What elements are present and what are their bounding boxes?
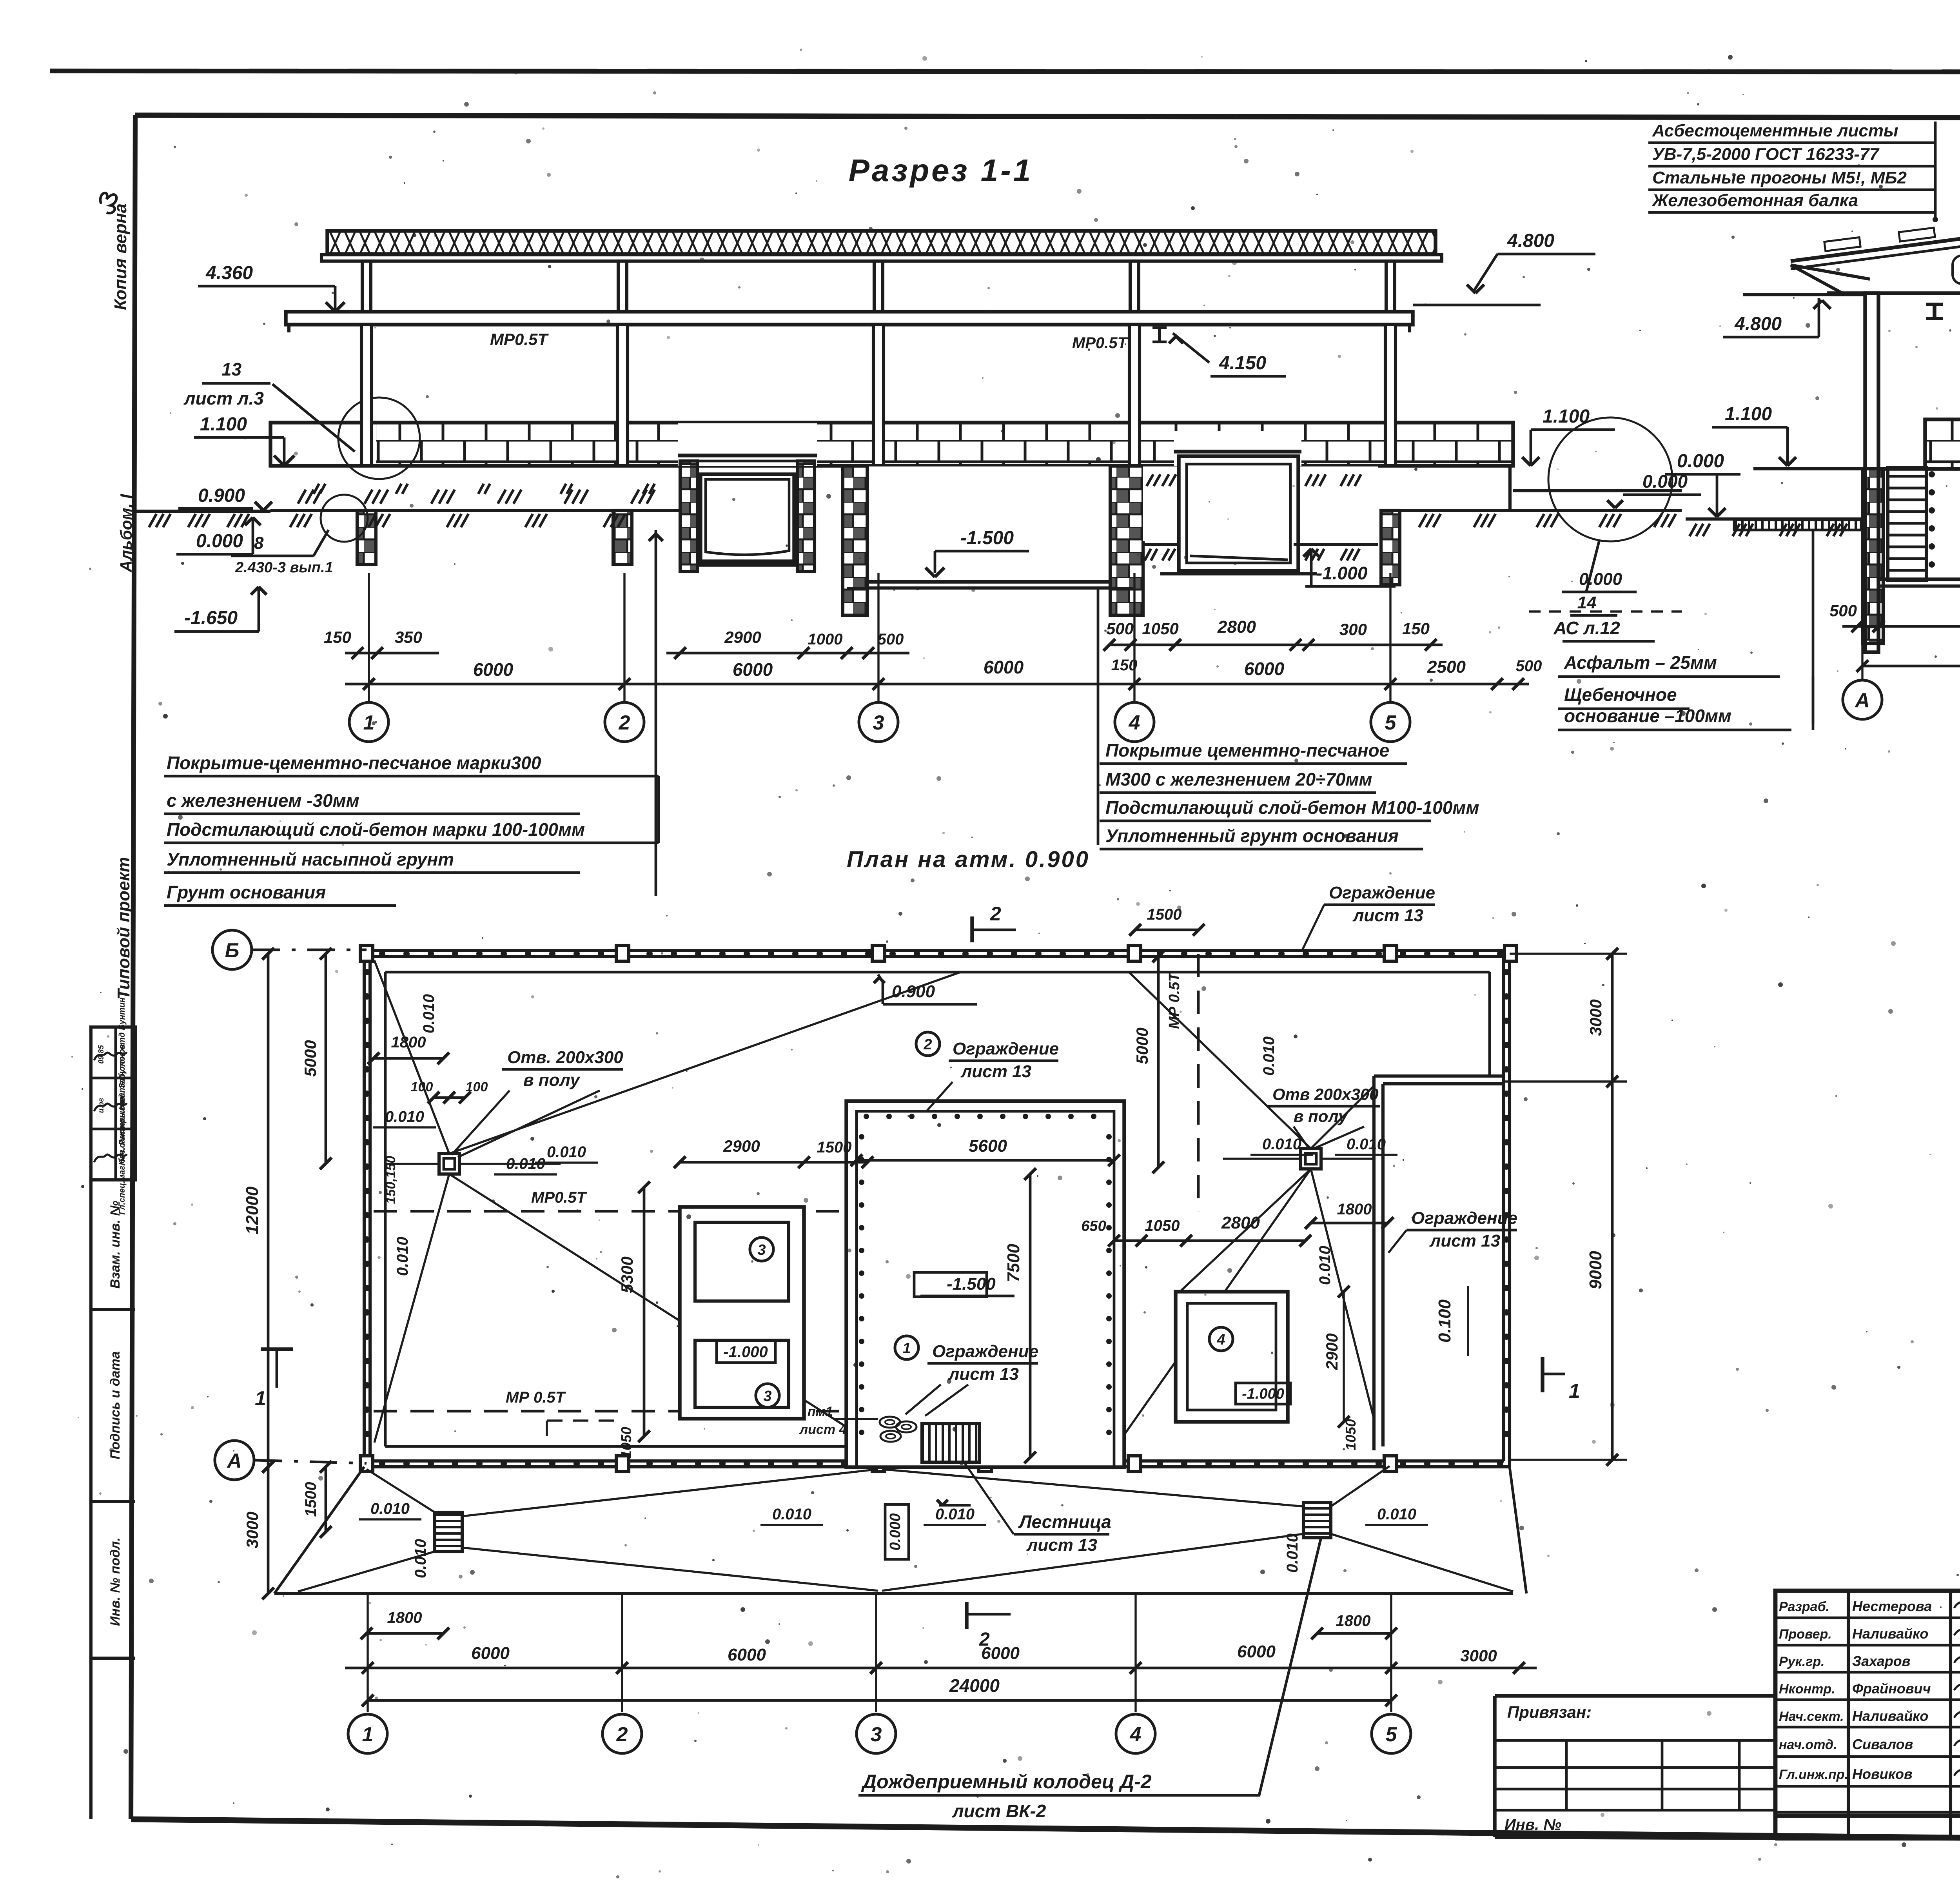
svg-text:М300 с железнением 20÷70мм: М300 с железнением 20÷70мм (1105, 769, 1372, 789)
svg-text:Альбом. I: Альбом. I (117, 494, 135, 572)
svg-text:3000: 3000 (243, 1512, 261, 1548)
svg-text:5000: 5000 (1133, 1027, 1151, 1064)
svg-text:Новиков: Новиков (1852, 1766, 1913, 1782)
svg-text:500: 500 (878, 631, 904, 648)
svg-text:1000: 1000 (808, 631, 843, 648)
svg-text:Взам. инв. №: Взам. инв. № (108, 1201, 123, 1289)
svg-text:-1.650: -1.650 (184, 608, 238, 628)
svg-text:1: 1 (1569, 1380, 1580, 1403)
svg-text:основание –100мм: основание –100мм (1564, 706, 1731, 726)
svg-text:1: 1 (362, 1723, 374, 1746)
svg-text:6000: 6000 (984, 657, 1024, 677)
svg-text:Копия верна: Копия верна (111, 203, 130, 310)
svg-text:1: 1 (902, 1340, 911, 1357)
svg-text:Отв. 200х300: Отв. 200х300 (507, 1048, 623, 1067)
svg-text:Отв 200х300: Отв 200х300 (1272, 1085, 1379, 1103)
svg-text:5600: 5600 (969, 1136, 1007, 1156)
svg-text:3000: 3000 (1586, 999, 1605, 1036)
svg-text:А: А (226, 1450, 242, 1472)
svg-text:Сивалов: Сивалов (1852, 1736, 1913, 1752)
svg-text:6000: 6000 (981, 1644, 1020, 1663)
svg-text:Нестерова: Нестерова (1852, 1598, 1932, 1614)
svg-text:0.010: 0.010 (1316, 1246, 1334, 1285)
svg-text:1.100: 1.100 (1543, 406, 1590, 427)
svg-text:лист 13: лист 13 (948, 1365, 1019, 1384)
svg-text:лист л.3: лист л.3 (183, 388, 264, 408)
svg-text:Нач.сект.: Нач.сект. (1779, 1709, 1844, 1724)
svg-text:2500: 2500 (1427, 657, 1466, 677)
svg-text:0.000: 0.000 (1579, 570, 1622, 589)
svg-text:0.010: 0.010 (506, 1155, 545, 1172)
svg-text:150: 150 (324, 628, 351, 646)
svg-text:Ограждение: Ограждение (953, 1039, 1059, 1058)
svg-text:2900: 2900 (1323, 1333, 1341, 1370)
svg-text:Фрайнович: Фрайнович (1852, 1680, 1931, 1697)
svg-text:1050: 1050 (1343, 1419, 1359, 1450)
svg-text:24000: 24000 (949, 1675, 1000, 1696)
svg-text:0.000: 0.000 (887, 1513, 904, 1550)
svg-text:Провер.: Провер. (1779, 1627, 1832, 1642)
svg-text:Подстилающий слой-бетон М100-1: Подстилающий слой-бетон М100-100мм (1105, 797, 1479, 818)
svg-text:9000: 9000 (1586, 1251, 1605, 1289)
svg-text:1800: 1800 (391, 1034, 426, 1051)
svg-text:4.150: 4.150 (1219, 353, 1266, 374)
svg-text:1: 1 (255, 1387, 266, 1410)
svg-text:Лестница: Лестница (1018, 1512, 1111, 1532)
svg-text:нач.отд.: нач.отд. (1779, 1737, 1837, 1752)
svg-text:Типовой проект: Типовой проект (114, 857, 133, 1000)
svg-text:Гл.инж.пр.: Гл.инж.пр. (1779, 1767, 1848, 1782)
svg-text:Разрез 1-1: Разрез 1-1 (849, 153, 1033, 188)
svg-text:Дождеприемный колодец Д-2: Дождеприемный колодец Д-2 (861, 1771, 1152, 1793)
svg-text:14: 14 (1577, 593, 1597, 612)
svg-text:0.900: 0.900 (892, 982, 935, 1001)
svg-text:4.800: 4.800 (1507, 230, 1554, 251)
svg-text:5: 5 (1386, 1723, 1397, 1746)
svg-text:1500: 1500 (302, 1482, 319, 1517)
svg-text:Ограждение: Ограждение (1329, 883, 1435, 902)
svg-text:1050: 1050 (1142, 619, 1178, 638)
svg-text:7500: 7500 (1004, 1244, 1023, 1282)
svg-text:Уплотненный насыпной грунт: Уплотненный насыпной грунт (167, 849, 454, 869)
svg-text:2.430-3 вып.1: 2.430-3 вып.1 (235, 559, 333, 576)
svg-text:лист ВК-2: лист ВК-2 (952, 1801, 1046, 1821)
svg-text:6000: 6000 (733, 659, 773, 680)
svg-text:5300: 5300 (618, 1256, 636, 1293)
svg-text:0.010: 0.010 (935, 1506, 975, 1523)
svg-text:0.010: 0.010 (1347, 1136, 1386, 1153)
svg-text:Б: Б (225, 939, 240, 962)
svg-text:с железнением -30мм: с железнением -30мм (167, 790, 359, 811)
svg-text:Подпись и дата: Подпись и дата (108, 1351, 123, 1459)
svg-text:Инв. №: Инв. № (1504, 1816, 1561, 1833)
svg-text:Покрытие цементно-песчаное: Покрытие цементно-песчаное (1105, 740, 1389, 760)
svg-text:МР0.5Т: МР0.5Т (531, 1189, 588, 1206)
svg-text:0.010: 0.010 (1377, 1506, 1416, 1523)
svg-text:в полу: в полу (523, 1071, 581, 1090)
svg-text:Наливайко: Наливайко (1852, 1626, 1928, 1642)
svg-text:Стальные прогоны М5!, МБ2: Стальные прогоны М5!, МБ2 (1652, 168, 1907, 187)
svg-text:350: 350 (395, 628, 422, 646)
svg-text:1500: 1500 (817, 1139, 852, 1156)
svg-text:4: 4 (1129, 711, 1140, 734)
svg-text:-1.000: -1.000 (1242, 1386, 1284, 1402)
svg-text:Покрытие-цементно-песчаное ма: Покрытие-цементно-песчаное марки300 (167, 753, 541, 773)
svg-text:1.100: 1.100 (200, 414, 247, 435)
svg-text:0.010: 0.010 (1262, 1136, 1301, 1153)
svg-text:лист 13: лист 13 (1429, 1231, 1500, 1250)
svg-text:0.010: 0.010 (385, 1108, 424, 1125)
svg-text:0.100: 0.100 (1435, 1299, 1454, 1343)
svg-text:300: 300 (1339, 620, 1367, 639)
svg-text:2: 2 (619, 711, 630, 734)
svg-text:в полу: в полу (1294, 1107, 1348, 1125)
svg-text:4: 4 (1130, 1723, 1142, 1746)
svg-text:лист 4: лист 4 (799, 1422, 847, 1437)
svg-text:Ограждение: Ограждение (1411, 1209, 1517, 1228)
svg-text:1500: 1500 (1147, 906, 1182, 923)
svg-text:УВ-7,5-2000 ГОСТ 16233-77: УВ-7,5-2000 ГОСТ 16233-77 (1652, 145, 1880, 164)
svg-text:0.900: 0.900 (198, 485, 245, 506)
svg-text:6000: 6000 (473, 659, 514, 680)
svg-text:-1.500: -1.500 (960, 528, 1014, 548)
svg-text:3: 3 (757, 1242, 766, 1258)
svg-text:Грунт основания: Грунт основания (167, 882, 326, 902)
svg-text:лист 13: лист 13 (1352, 906, 1423, 925)
svg-text:0.010: 0.010 (412, 1539, 429, 1578)
svg-text:0.010: 0.010 (547, 1143, 586, 1161)
svg-text:А: А (1854, 689, 1870, 712)
svg-text:500: 500 (1106, 619, 1134, 638)
svg-text:2800: 2800 (1221, 1213, 1260, 1232)
svg-text:6000: 6000 (471, 1644, 510, 1663)
svg-text:Щебеночное: Щебеночное (1564, 684, 1677, 705)
svg-text:4.360: 4.360 (205, 263, 253, 283)
svg-text:1800: 1800 (1337, 1201, 1372, 1218)
svg-text:6000: 6000 (1244, 659, 1285, 679)
svg-text:МР0.5Т: МР0.5Т (1072, 334, 1129, 352)
svg-text:2900: 2900 (723, 1137, 760, 1155)
svg-text:2900: 2900 (724, 628, 761, 646)
svg-text:0.010: 0.010 (394, 1237, 411, 1276)
svg-text:Захаров: Захаров (1852, 1653, 1910, 1669)
svg-text:1800: 1800 (1336, 1612, 1371, 1630)
svg-text:Наливайко: Наливайко (1852, 1708, 1928, 1724)
svg-text:0.010: 0.010 (1284, 1533, 1301, 1573)
svg-text:1050: 1050 (1145, 1217, 1180, 1234)
svg-text:АС л.12: АС л.12 (1553, 618, 1620, 638)
svg-text:12000: 12000 (243, 1186, 262, 1234)
svg-text:Ограждение: Ограждение (932, 1342, 1038, 1361)
svg-text:Нконтр.: Нконтр. (1779, 1682, 1835, 1697)
svg-text:500: 500 (1829, 601, 1857, 620)
svg-text:Рук.гр.: Рук.гр. (1779, 1654, 1825, 1669)
svg-text:1800: 1800 (387, 1609, 422, 1626)
svg-text:650: 650 (1081, 1218, 1106, 1234)
svg-text:Железобетонная балка: Железобетонная балка (1651, 191, 1858, 210)
svg-text:3: 3 (873, 711, 884, 734)
svg-text:Уплотненный грунт основания: Уплотненный грунт основания (1105, 826, 1399, 846)
svg-text:5: 5 (1385, 711, 1397, 734)
svg-text:0.000: 0.000 (1677, 451, 1724, 472)
svg-text:лист 13: лист 13 (960, 1062, 1031, 1081)
svg-text:-1.000: -1.000 (723, 1343, 768, 1361)
svg-text:100: 100 (411, 1080, 433, 1094)
svg-text:3: 3 (763, 1388, 771, 1405)
svg-text:Привязан:: Привязан: (1507, 1703, 1592, 1721)
svg-text:Асфальт – 25мм: Асфальт – 25мм (1564, 652, 1717, 673)
svg-text:2: 2 (990, 903, 1001, 925)
svg-text:3: 3 (871, 1723, 882, 1746)
svg-text:8: 8 (254, 534, 264, 553)
svg-text:-1.000: -1.000 (1316, 563, 1368, 583)
svg-text:-1.500: -1.500 (947, 1274, 996, 1294)
svg-text:500: 500 (1516, 657, 1542, 675)
svg-text:1050: 1050 (618, 1427, 634, 1458)
svg-text:Инв. № подл.: Инв. № подл. (108, 1537, 123, 1626)
svg-text:МР0.5Т: МР0.5Т (490, 330, 549, 348)
svg-text:0.010: 0.010 (772, 1506, 811, 1523)
svg-text:Асбестоцементные листы: Асбестоцементные листы (1652, 121, 1898, 140)
svg-text:100: 100 (466, 1080, 488, 1094)
svg-text:13: 13 (221, 359, 242, 379)
svg-text:0.000: 0.000 (196, 531, 243, 552)
svg-text:6000: 6000 (728, 1645, 766, 1664)
svg-text:4.800: 4.800 (1734, 314, 1782, 334)
svg-text:0.010: 0.010 (1260, 1036, 1278, 1076)
svg-text:2: 2 (616, 1723, 628, 1746)
svg-text:4: 4 (1216, 1332, 1225, 1348)
svg-text:1.100: 1.100 (1725, 404, 1772, 425)
svg-text:лист 13: лист 13 (1026, 1535, 1097, 1555)
svg-text:5000: 5000 (301, 1040, 319, 1076)
svg-text:2: 2 (923, 1036, 932, 1053)
svg-text:Разраб.: Разраб. (1779, 1599, 1829, 1614)
svg-text:0.010: 0.010 (420, 994, 437, 1033)
svg-text:Подстилающий слой-бетон марк: Подстилающий слой-бетон марки 100-100мм (167, 819, 585, 840)
svg-text:0.010: 0.010 (370, 1500, 410, 1517)
svg-text:МР 0.5Т: МР 0.5Т (506, 1389, 566, 1406)
svg-text:пм1: пм1 (808, 1404, 833, 1419)
svg-text:150,150: 150,150 (383, 1156, 398, 1204)
svg-text:3000: 3000 (1460, 1646, 1497, 1665)
svg-text:6000: 6000 (1237, 1642, 1276, 1661)
svg-text:2800: 2800 (1217, 617, 1256, 637)
svg-text:150: 150 (1402, 619, 1430, 638)
svg-text:План на атм. 0.900: План на атм. 0.900 (847, 847, 1090, 872)
